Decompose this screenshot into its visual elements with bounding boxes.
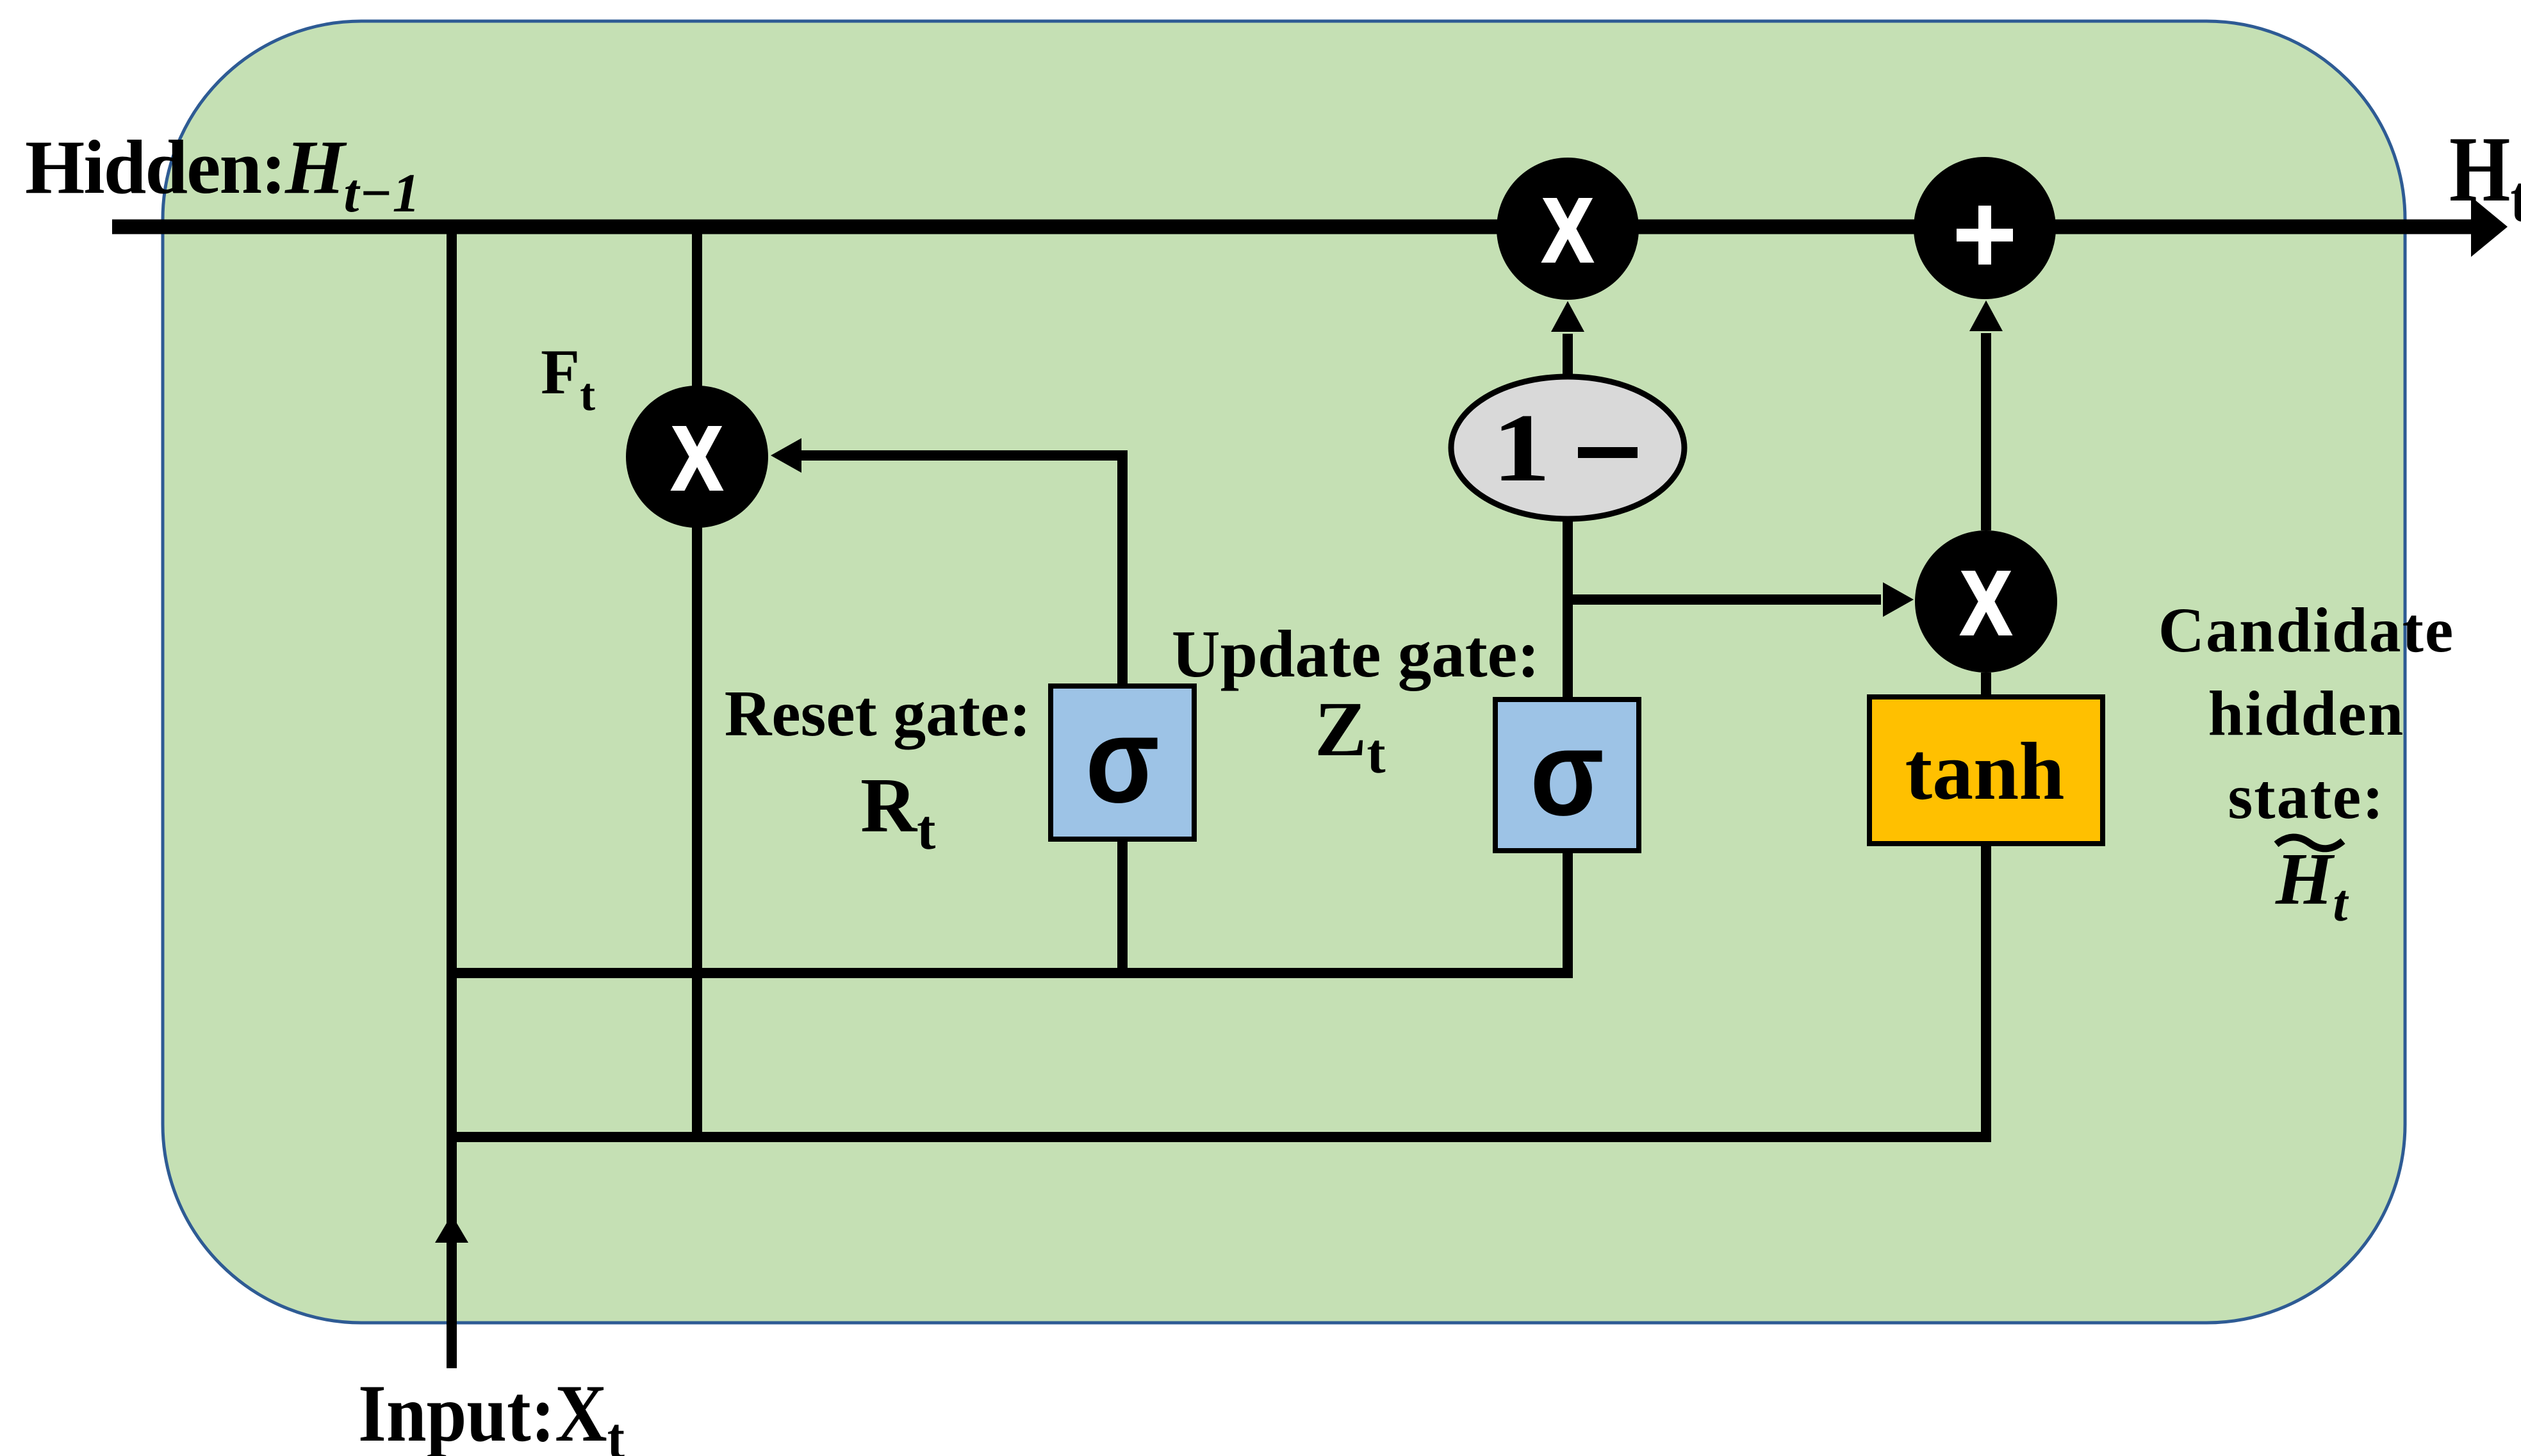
wire: sigma R down to concat line	[1117, 839, 1128, 977]
op: + add circle	[1914, 157, 2056, 299]
svg-text:tanh: tanh	[1905, 726, 2065, 817]
svg-text:X: X	[1543, 179, 1593, 281]
svg-text:X: X	[1961, 552, 2012, 653]
arrowhead into +	[1969, 300, 2003, 331]
wire: tanh down and concat line 2	[452, 840, 1986, 1137]
arrowhead into X1	[771, 438, 801, 473]
wire: X3 up to +	[1981, 333, 1991, 530]
svg-text:hidden: hidden	[2208, 678, 2405, 749]
svg-text:Input:Xt: Input:Xt	[358, 1369, 625, 1456]
op: X3 multiply circle	[1915, 530, 2057, 673]
wire: H_{t-1} branch down through X1 (x=1088)	[692, 227, 702, 1137]
svg-text:Reset gate:: Reset gate:	[725, 678, 1031, 750]
wire: reset gate output into X1 (corner)	[799, 455, 1122, 686]
svg-text:Ht: Ht	[2449, 118, 2521, 236]
svg-text:Candidate: Candidate	[2158, 594, 2455, 666]
gate: tanh box	[1869, 697, 2103, 844]
arrowhead on input line	[435, 1215, 468, 1243]
svg-text:σ: σ	[1530, 705, 1604, 841]
wire: input line (vertical at x=705)	[447, 227, 457, 1368]
arrowhead into X3	[1883, 582, 1914, 617]
GRU cell body (green rounded box)	[163, 21, 2405, 1323]
gate: sigma Z box (update)	[1495, 699, 1639, 851]
label: H_t	[2449, 118, 2521, 236]
svg-text:state:: state:	[2228, 761, 2385, 832]
svg-text:Update gate:: Update gate:	[1172, 616, 1540, 691]
gate: sigma R box (reset)	[1051, 686, 1194, 839]
wire: update gate up to 1- ellipse	[1563, 517, 1573, 699]
wire: update gate branch to X3	[1568, 594, 1881, 605]
svg-text:σ: σ	[1085, 692, 1160, 828]
+ glyph	[1957, 229, 2013, 241]
arrowhead H_t output	[2471, 197, 2508, 257]
svg-text:X: X	[672, 407, 723, 509]
wire: concat line 1 (to update gate) with corner up	[452, 851, 1568, 973]
op: X1 multiply circle	[626, 386, 768, 528]
svg-text:1: 1	[1492, 394, 1550, 502]
op: X2 multiply circle	[1497, 158, 1639, 300]
wire: 1- ellipse up to X2	[1563, 334, 1573, 378]
wire: X3 down to tanh	[1981, 673, 1991, 701]
wire: hidden state main line H_{t-1} to H_t	[112, 220, 2474, 234]
arrowhead into X2	[1551, 301, 1584, 332]
node: 1- ellipse	[1451, 377, 1684, 519]
